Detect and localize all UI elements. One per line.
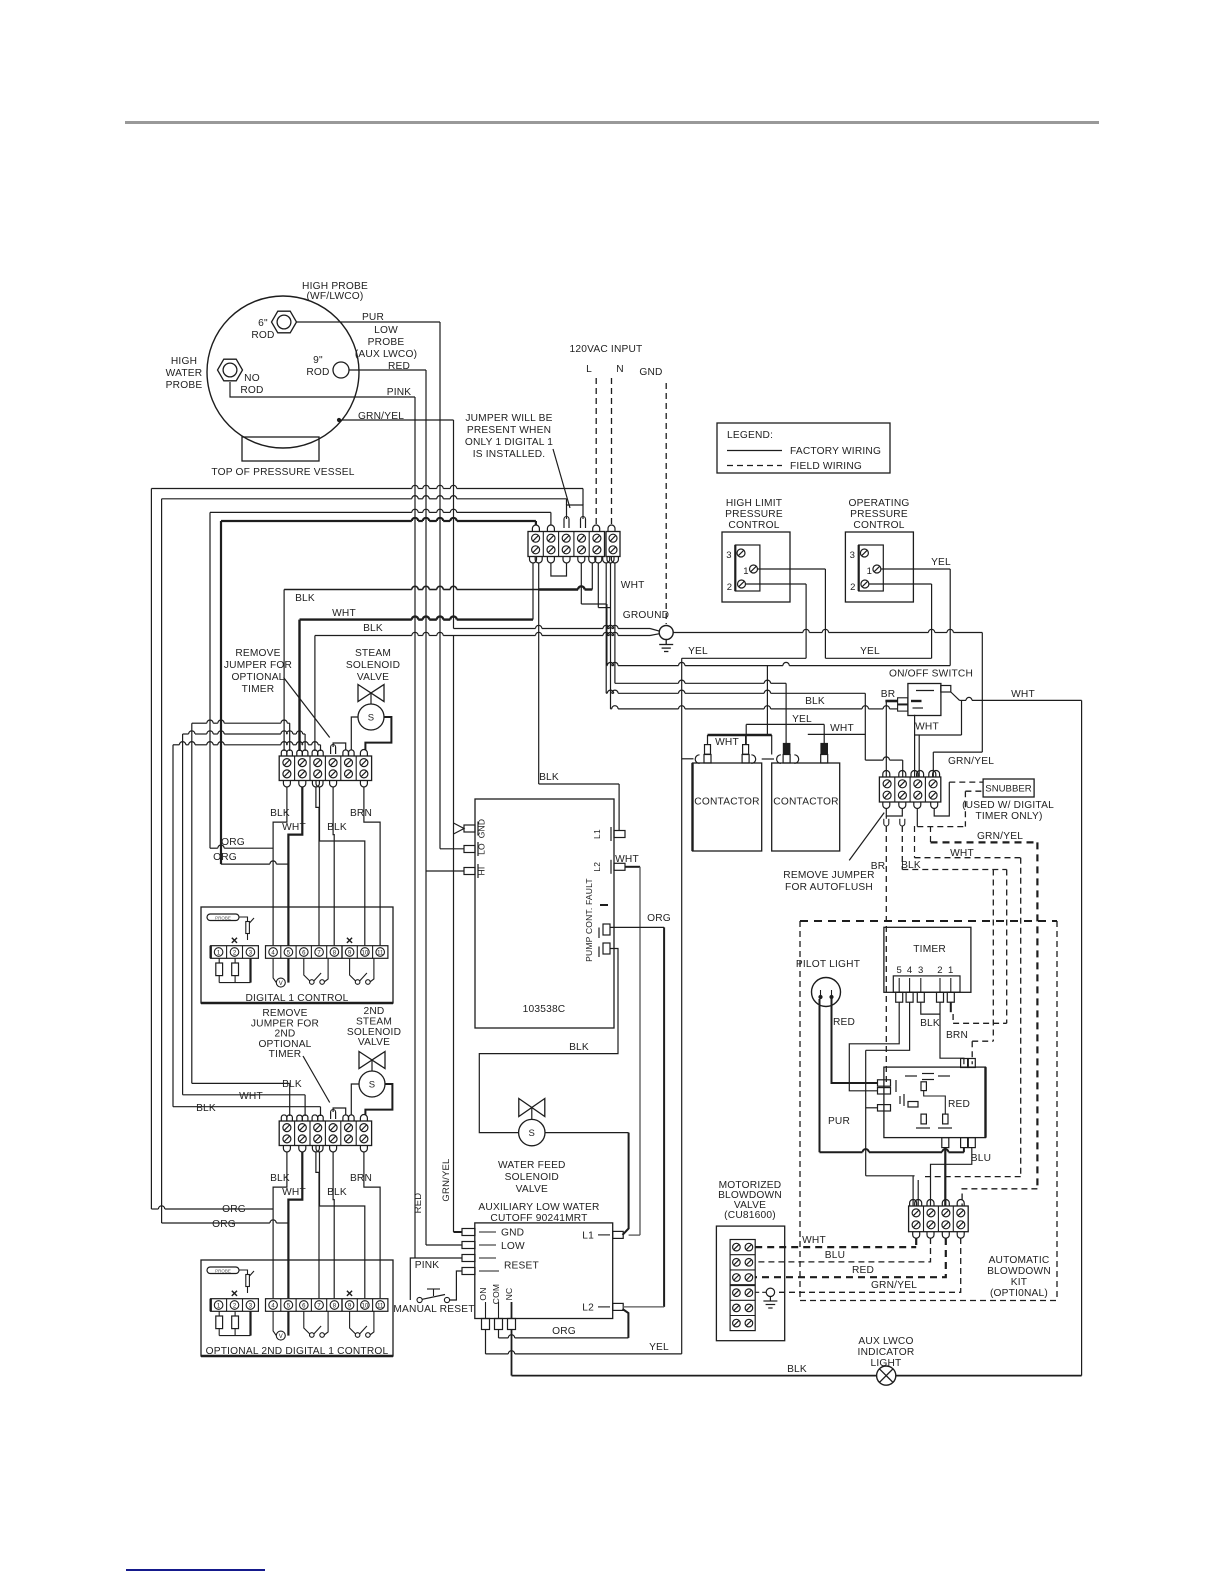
svg-text:(CU81600): (CU81600) [724, 1210, 776, 1221]
svg-text:BLK: BLK [295, 593, 315, 604]
svg-text:(AUX LWCO): (AUX LWCO) [355, 349, 417, 360]
svg-text:CONTROL: CONTROL [853, 520, 904, 531]
svg-text:BR: BR [881, 689, 896, 700]
svg-text:GND: GND [501, 1228, 524, 1239]
svg-text:YEL: YEL [792, 714, 812, 725]
svg-text:OPTIONAL 2ND DIGITAL 1 CONTROL: OPTIONAL 2ND DIGITAL 1 CONTROL [206, 1346, 389, 1357]
svg-text:WHT: WHT [715, 737, 739, 748]
svg-text:ORG: ORG [222, 1204, 246, 1215]
svg-text:INDICATOR: INDICATOR [858, 1347, 915, 1358]
svg-text:REMOVE JUMPER: REMOVE JUMPER [783, 870, 874, 881]
svg-text:KIT: KIT [1011, 1277, 1027, 1288]
svg-text:S: S [368, 713, 375, 724]
svg-text:4: 4 [907, 965, 912, 976]
svg-text:CUTOFF 90241MRT: CUTOFF 90241MRT [490, 1213, 587, 1224]
svg-text:BLK: BLK [327, 822, 347, 833]
svg-text:L1: L1 [592, 829, 602, 839]
svg-text:1: 1 [867, 566, 872, 577]
svg-text:SOLENOID: SOLENOID [347, 1027, 401, 1038]
svg-text:L1: L1 [582, 1230, 594, 1241]
svg-text:PINK: PINK [387, 387, 412, 398]
svg-text:AUXILIARY LOW WATER: AUXILIARY LOW WATER [478, 1202, 599, 1213]
svg-text:BLK: BLK [539, 772, 559, 783]
svg-text:LOW: LOW [501, 1241, 525, 1252]
svg-text:PROBE: PROBE [215, 915, 231, 920]
svg-text:103538C: 103538C [523, 1004, 566, 1015]
svg-text:PRESSURE: PRESSURE [725, 509, 783, 520]
svg-text:L: L [586, 364, 592, 375]
svg-text:WATER: WATER [166, 368, 203, 379]
svg-text:TIMER: TIMER [913, 944, 946, 955]
svg-text:BLK: BLK [787, 1364, 807, 1375]
svg-text:NO: NO [244, 373, 260, 384]
svg-text:TIMER: TIMER [242, 684, 275, 695]
svg-text:SOLENOID: SOLENOID [346, 660, 400, 671]
svg-text:LOW: LOW [374, 325, 398, 336]
svg-text:ROD: ROD [306, 367, 329, 378]
svg-text:STEAM: STEAM [356, 1016, 392, 1027]
svg-text:11: 11 [377, 1303, 384, 1309]
svg-text:WHT: WHT [615, 854, 639, 865]
svg-text:TOP OF PRESSURE VESSEL: TOP OF PRESSURE VESSEL [211, 467, 354, 478]
svg-text:L2: L2 [582, 1302, 594, 1313]
svg-text:OPTIONAL: OPTIONAL [231, 672, 284, 683]
svg-text:WHT: WHT [1011, 689, 1035, 700]
svg-text:ON/OFF SWITCH: ON/OFF SWITCH [889, 669, 973, 680]
svg-text:HI: HI [477, 867, 487, 876]
svg-text:PUR: PUR [362, 312, 384, 323]
svg-text:CONTROL: CONTROL [728, 520, 779, 531]
svg-text:BLK: BLK [920, 1018, 940, 1029]
svg-text:SNUBBER: SNUBBER [985, 784, 1031, 795]
svg-text:BLK: BLK [282, 1079, 302, 1090]
svg-text:YEL: YEL [860, 646, 880, 657]
svg-text:FIELD WIRING: FIELD WIRING [790, 461, 862, 472]
svg-text:YEL: YEL [688, 646, 708, 657]
svg-text:BLU: BLU [825, 1250, 845, 1261]
svg-text:V: V [279, 1334, 283, 1340]
svg-text:2: 2 [727, 582, 732, 593]
svg-text:(OPTI0NAL): (OPTI0NAL) [990, 1288, 1048, 1299]
svg-text:RED: RED [413, 1193, 424, 1214]
svg-text:BLK: BLK [327, 1187, 347, 1198]
svg-text:BLK: BLK [805, 696, 825, 707]
svg-text:SOLENOID: SOLENOID [505, 1172, 559, 1183]
svg-text:WHT: WHT [621, 580, 645, 591]
svg-text:MANUAL RESET: MANUAL RESET [393, 1304, 474, 1315]
svg-text:ORG: ORG [213, 852, 237, 863]
svg-text:DIGITAL 1 CONTROL: DIGITAL 1 CONTROL [245, 993, 348, 1004]
svg-text:3: 3 [918, 965, 923, 976]
svg-text:ROD: ROD [240, 385, 263, 396]
svg-text:BRN: BRN [946, 1030, 968, 1041]
svg-text:PROBE: PROBE [166, 380, 203, 391]
svg-text:TIMER: TIMER [269, 1049, 302, 1060]
svg-text:YEL: YEL [931, 557, 951, 568]
svg-text:(USED W/ DIGITAL: (USED W/ DIGITAL [962, 800, 1054, 811]
svg-text:HIGH: HIGH [171, 356, 197, 367]
svg-text:1: 1 [948, 965, 953, 976]
svg-text:YEL: YEL [649, 1342, 669, 1353]
svg-text:BLK: BLK [196, 1103, 216, 1114]
svg-text:BLOWDOWN: BLOWDOWN [987, 1266, 1051, 1277]
svg-text:V: V [279, 981, 283, 987]
svg-text:OPERATING: OPERATING [848, 498, 909, 509]
svg-text:2: 2 [850, 582, 855, 593]
svg-text:ORG: ORG [552, 1326, 576, 1337]
svg-text:STEAM: STEAM [355, 648, 391, 659]
svg-text:ORG: ORG [647, 913, 671, 924]
svg-text:S: S [369, 1080, 376, 1091]
svg-text:3: 3 [726, 550, 731, 561]
svg-text:11: 11 [377, 950, 384, 956]
svg-text:IS INSTALLED.: IS INSTALLED. [473, 449, 546, 460]
svg-text:CONTACTOR: CONTACTOR [773, 797, 838, 808]
svg-text:RED: RED [833, 1017, 855, 1028]
svg-text:PRESENT WHEN: PRESENT WHEN [467, 425, 551, 436]
svg-text:PINK: PINK [415, 1260, 440, 1271]
svg-text:RED: RED [852, 1265, 874, 1276]
svg-text:WHT: WHT [332, 608, 356, 619]
svg-text:RED: RED [948, 1099, 970, 1110]
svg-text:BLK: BLK [569, 1042, 589, 1053]
svg-text:VALVE: VALVE [358, 1037, 390, 1048]
svg-text:GRN/YEL: GRN/YEL [948, 756, 994, 767]
svg-text:BLU: BLU [971, 1153, 991, 1164]
svg-text:ONLY 1 DIGITAL 1: ONLY 1 DIGITAL 1 [465, 437, 553, 448]
svg-text:FACTORY WIRING: FACTORY WIRING [790, 446, 881, 457]
svg-text:PROBE: PROBE [215, 1268, 231, 1273]
svg-text:CONTACTOR: CONTACTOR [694, 797, 759, 808]
svg-text:PILOT LIGHT: PILOT LIGHT [796, 959, 860, 970]
svg-text:120VAC INPUT: 120VAC INPUT [570, 344, 643, 355]
svg-text:LEGEND:: LEGEND: [727, 430, 773, 441]
svg-text:TIMER ONLY): TIMER ONLY) [975, 811, 1042, 822]
svg-text:10: 10 [362, 950, 369, 956]
svg-text:VALVE: VALVE [516, 1184, 548, 1195]
svg-text:WHT: WHT [915, 722, 939, 733]
svg-text:BRN: BRN [350, 1173, 372, 1184]
svg-text:REMOVE: REMOVE [235, 648, 280, 659]
svg-text:JUMPER WILL BE: JUMPER WILL BE [465, 413, 552, 424]
svg-text:GRN/YEL: GRN/YEL [871, 1280, 917, 1291]
svg-text:GROUND: GROUND [623, 610, 669, 621]
svg-text:3: 3 [850, 550, 855, 561]
svg-text:5: 5 [896, 965, 901, 976]
svg-text:FOR AUTOFLUSH: FOR AUTOFLUSH [785, 882, 873, 893]
svg-text:PROBE: PROBE [368, 337, 405, 348]
svg-text:ORG: ORG [212, 1219, 236, 1230]
svg-text:PUR: PUR [828, 1116, 850, 1127]
svg-text:ROD: ROD [251, 330, 274, 341]
svg-text:WHT: WHT [830, 723, 854, 734]
svg-text:1: 1 [743, 566, 748, 577]
svg-text:PRESSURE: PRESSURE [850, 509, 908, 520]
svg-text:PUMP CONT. FAULT: PUMP CONT. FAULT [584, 878, 594, 962]
svg-text:S: S [529, 1128, 536, 1139]
svg-text:BLK: BLK [363, 623, 383, 634]
svg-text:6": 6" [258, 318, 268, 329]
svg-text:RESET: RESET [504, 1261, 539, 1272]
svg-text:GRN/YEL: GRN/YEL [441, 1158, 452, 1201]
svg-text:LIGHT: LIGHT [870, 1358, 901, 1369]
svg-text:COM: COM [491, 1284, 501, 1304]
svg-text:HIGH LIMIT: HIGH LIMIT [726, 498, 782, 509]
svg-text:VALVE: VALVE [357, 672, 389, 683]
svg-text:NC: NC [504, 1288, 514, 1301]
svg-text:L2: L2 [592, 862, 602, 872]
svg-text:WHT: WHT [239, 1091, 263, 1102]
svg-text:AUX LWCO: AUX LWCO [858, 1336, 913, 1347]
svg-text:AUTOMATIC: AUTOMATIC [989, 1255, 1050, 1266]
svg-text:LO: LO [477, 843, 487, 855]
svg-text:JUMPER FOR: JUMPER FOR [224, 660, 292, 671]
svg-text:WHT: WHT [802, 1235, 826, 1246]
svg-text:2ND: 2ND [364, 1006, 385, 1017]
svg-text:WATER FEED: WATER FEED [498, 1160, 566, 1171]
svg-text:GND: GND [639, 367, 662, 378]
svg-text:2: 2 [937, 965, 942, 976]
svg-text:GND: GND [477, 819, 487, 839]
svg-text:(WF/LWCO): (WF/LWCO) [306, 291, 363, 302]
svg-text:GRN/YEL: GRN/YEL [977, 831, 1023, 842]
svg-text:N: N [616, 364, 624, 375]
svg-text:ORG: ORG [221, 837, 245, 848]
svg-text:9": 9" [313, 355, 323, 366]
svg-text:BRN: BRN [350, 808, 372, 819]
svg-text:ON: ON [478, 1287, 488, 1300]
svg-text:10: 10 [362, 1303, 369, 1309]
